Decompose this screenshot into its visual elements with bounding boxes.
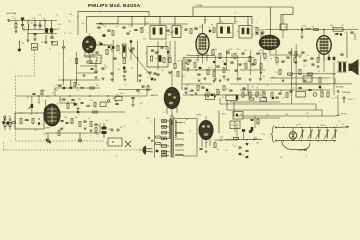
svg-text:68: 68 (312, 27, 314, 29)
svg-text:10k: 10k (256, 143, 259, 145)
capacitor (168, 72, 171, 73)
svg-text:A 320mA: A 320mA (342, 91, 350, 94)
wire drop (174, 17, 176, 26)
mains plug (139, 146, 153, 155)
IF T1 core b (160, 28, 163, 35)
capacitor (58, 85, 61, 86)
capacitor C4 (33, 34, 36, 35)
small box (303, 76, 312, 82)
svg-text:470: 470 (244, 95, 247, 97)
lead label 12 (163, 126, 165, 127)
svg-text:4,7: 4,7 (138, 93, 140, 95)
node (38, 118, 39, 119)
svg-text:25: 25 (236, 22, 238, 24)
capacitor C14 (25, 120, 28, 121)
capacitor (310, 58, 313, 59)
wire (270, 7, 272, 36)
wire drop (204, 17, 206, 25)
diagonal wire (128, 48, 151, 77)
diode (245, 143, 248, 146)
wire (243, 117, 280, 119)
svg-text:22k: 22k (90, 100, 93, 102)
ground (50, 42, 53, 44)
switch X (125, 141, 131, 147)
svg-text:A 320mA: A 320mA (336, 86, 344, 89)
svg-text:470: 470 (160, 146, 163, 148)
capacitor (255, 33, 258, 34)
svg-text:330: 330 (96, 85, 99, 87)
node (195, 69, 196, 70)
wire (27, 33, 29, 40)
secondary lead 4 (175, 154, 183, 156)
component (199, 67, 202, 69)
svg-text:18k: 18k (285, 114, 288, 116)
small box (226, 95, 237, 101)
wire (259, 55, 261, 78)
wire (45, 132, 100, 134)
svg-text:10k: 10k (8, 116, 11, 118)
switch dot (112, 141, 113, 142)
wire (22, 21, 24, 25)
capacitor (278, 93, 281, 94)
capacitor (275, 97, 278, 98)
coil (100, 43, 103, 45)
wire (15, 21, 17, 24)
svg-text:22k: 22k (161, 70, 164, 72)
wire (280, 15, 282, 31)
pot circle (107, 100, 110, 103)
node (283, 127, 284, 128)
svg-text:220: 220 (59, 129, 62, 131)
svg-text:220: 220 (262, 93, 265, 95)
svg-text:470: 470 (332, 74, 335, 76)
transformer secondary (174, 120, 177, 138)
resistor (327, 92, 329, 97)
resistor (74, 82, 76, 87)
capacitor (97, 27, 100, 28)
svg-text:25: 25 (332, 77, 334, 79)
terminal (117, 129, 119, 131)
ground (131, 105, 134, 107)
wire (132, 99, 134, 104)
wire (251, 17, 253, 25)
lead label 13 (163, 138, 165, 139)
node (89, 95, 90, 96)
component (272, 97, 274, 99)
ground (259, 72, 262, 74)
component (239, 153, 242, 155)
resistor (41, 90, 43, 95)
resistor (261, 34, 263, 39)
svg-text:330: 330 (103, 45, 106, 47)
wire (292, 7, 294, 15)
svg-text:22k: 22k (68, 21, 71, 23)
resistor (219, 54, 221, 59)
svg-text:2,2: 2,2 (254, 137, 256, 139)
node (107, 95, 108, 96)
wire (38, 96, 40, 103)
resistor (141, 28, 143, 33)
ground (44, 42, 47, 44)
svg-text:0,1: 0,1 (43, 19, 45, 21)
tuning coil 4 (324, 127, 329, 142)
wire bus 2 (23, 29, 58, 31)
capacitor (184, 29, 187, 30)
wire (262, 49, 264, 55)
svg-text:5k: 5k (166, 27, 168, 29)
resistor (249, 98, 254, 100)
svg-text:5k: 5k (36, 113, 38, 115)
capacitor (123, 71, 126, 72)
capacitor (245, 151, 248, 152)
resistor R9 (9, 122, 11, 126)
svg-text:11 22: 11 22 (41, 42, 45, 44)
wire (243, 132, 245, 140)
switch contact (148, 137, 150, 139)
ground (33, 39, 36, 41)
svg-text:12k: 12k (275, 72, 278, 74)
terminal (111, 129, 113, 131)
resistor R5 (90, 87, 95, 89)
wire (77, 72, 97, 74)
svg-text:2x: 2x (22, 43, 24, 45)
component (123, 67, 126, 70)
component (209, 30, 211, 33)
resistor (295, 52, 297, 57)
wire (188, 55, 215, 57)
resistor (271, 93, 273, 98)
IF transformer T1 box (150, 26, 166, 40)
svg-text:1k: 1k (267, 85, 269, 87)
svg-text:12k: 12k (258, 92, 261, 94)
svg-text:330: 330 (303, 66, 306, 68)
capacitor (301, 52, 304, 53)
wire (282, 30, 284, 38)
ground (197, 80, 200, 82)
wire long v (137, 41, 139, 82)
svg-text:3,3: 3,3 (243, 63, 245, 65)
tube V3 (260, 36, 280, 50)
wire (323, 54, 325, 60)
resistor (308, 73, 313, 75)
resistor (299, 70, 301, 75)
node (323, 29, 324, 30)
node (137, 57, 138, 58)
wire (192, 7, 194, 17)
wire (346, 32, 348, 59)
resistor (150, 56, 152, 61)
svg-text:12k: 12k (56, 85, 59, 87)
component (167, 51, 169, 53)
wire (70, 80, 72, 86)
transformer primary (168, 119, 171, 139)
switch contact (151, 140, 153, 142)
svg-text:220: 220 (237, 49, 240, 51)
svg-text:6,8: 6,8 (104, 26, 106, 28)
small box (280, 24, 287, 30)
IF transformer T2 box (172, 26, 181, 38)
tube V7 (199, 121, 213, 140)
ground (303, 80, 306, 82)
svg-text:UABC80: UABC80 (150, 94, 159, 97)
component (211, 94, 213, 96)
tube V2 leads (198, 53, 207, 63)
wire (231, 54, 233, 59)
ground (236, 79, 239, 81)
resistor R11 (32, 119, 34, 124)
resistor (147, 86, 149, 91)
wire (51, 34, 53, 38)
wire (34, 35, 36, 39)
resistor (112, 31, 114, 36)
component (112, 46, 115, 49)
svg-text:12k: 12k (146, 118, 149, 120)
capacitor C13 (115, 104, 118, 105)
resistor (174, 64, 176, 69)
resistor (257, 119, 259, 124)
svg-text:0,1: 0,1 (38, 103, 40, 105)
svg-text:0,1: 0,1 (200, 83, 202, 85)
capacitor (234, 70, 237, 71)
svg-text:56: 56 (332, 98, 334, 100)
node (283, 140, 284, 141)
resistor (217, 90, 219, 95)
svg-text:18k: 18k (54, 118, 57, 120)
wire bus B (219, 100, 322, 133)
coil L1 (21, 17, 24, 19)
mech dashed link (16, 50, 106, 141)
capacitor (134, 30, 137, 31)
resistor (234, 54, 236, 59)
svg-text:100: 100 (237, 31, 240, 33)
svg-text:0,05: 0,05 (180, 27, 183, 29)
capacitor (126, 33, 129, 34)
small box (333, 28, 343, 31)
resistor R10 (20, 119, 22, 124)
wire (184, 58, 186, 70)
capacitor (141, 86, 144, 87)
resistor (256, 28, 258, 33)
wire (230, 83, 330, 85)
capacitor (230, 62, 233, 63)
svg-text:68: 68 (78, 84, 80, 86)
capacitor (155, 52, 158, 53)
capacitor (260, 32, 263, 33)
ground (110, 79, 113, 81)
svg-text:1k: 1k (124, 126, 126, 128)
capacitor (194, 28, 197, 29)
dark component (251, 127, 254, 131)
wire (60, 111, 125, 113)
capacitor (197, 74, 200, 75)
tuning bus ext (336, 126, 349, 129)
IF T3 core a (220, 27, 223, 34)
capacitor (238, 64, 241, 65)
component (63, 87, 65, 89)
node (299, 56, 300, 57)
svg-text:0,1: 0,1 (338, 121, 340, 123)
wire (323, 30, 325, 36)
svg-text:8,2: 8,2 (318, 71, 320, 73)
svg-text:4,7: 4,7 (67, 101, 69, 103)
wire (323, 60, 325, 72)
capacitor (251, 64, 254, 65)
wire (270, 77, 330, 79)
svg-text:17: 17 (49, 49, 51, 51)
primary lead 6 (161, 150, 169, 153)
capacitor (303, 60, 306, 61)
coil L4 (306, 28, 311, 31)
wire (27, 30, 29, 33)
resistor R13 (79, 122, 81, 127)
svg-text:68: 68 (129, 31, 131, 33)
capacitor (308, 90, 311, 91)
left brace (271, 126, 274, 143)
capacitor (62, 47, 65, 48)
wire bus C (234, 102, 340, 116)
resistor (249, 57, 251, 62)
antenna terminal (8, 20, 10, 22)
svg-text:UY85: UY85 (196, 115, 202, 117)
svg-text:0,05: 0,05 (154, 58, 157, 60)
svg-text:100: 100 (186, 85, 189, 87)
tube V2 (196, 34, 209, 55)
osc core (159, 55, 162, 62)
wire (183, 94, 262, 96)
dark cap (236, 95, 239, 100)
wire (45, 35, 47, 42)
coil L2 (27, 25, 30, 30)
svg-text:50: 50 (252, 35, 254, 37)
svg-text:4,7: 4,7 (56, 15, 58, 17)
resistor (288, 73, 293, 75)
svg-text:3,3: 3,3 (128, 25, 130, 27)
small box (296, 92, 306, 98)
ground (218, 80, 221, 82)
svg-text:47k: 47k (146, 72, 149, 74)
wire (51, 21, 53, 29)
svg-text:COR. Vol: COR. Vol (339, 114, 347, 116)
svg-text:22k: 22k (248, 92, 251, 94)
svg-text:10k: 10k (244, 50, 247, 52)
svg-text:470: 470 (177, 60, 180, 62)
svg-text:10k: 10k (211, 24, 214, 26)
capacitor C16 (65, 123, 68, 124)
lead label 14 (163, 151, 165, 152)
ground (194, 93, 197, 95)
wire (15, 28, 17, 31)
small box UM (230, 121, 240, 129)
wire (31, 96, 33, 115)
svg-text:4,7: 4,7 (104, 65, 106, 67)
svg-text:0,5: 0,5 (225, 150, 227, 152)
capacitor (216, 66, 219, 67)
switch box (108, 138, 122, 146)
svg-text:18k: 18k (186, 70, 189, 72)
svg-text:56: 56 (52, 93, 54, 95)
capacitor (250, 120, 253, 121)
wire (269, 50, 271, 55)
svg-text:220: 220 (229, 49, 232, 51)
osc box (147, 47, 168, 68)
component (206, 89, 208, 91)
ground (212, 81, 215, 83)
svg-text:47k: 47k (96, 134, 99, 136)
svg-text:50: 50 (300, 88, 302, 90)
svg-text:1k: 1k (290, 54, 292, 56)
resistor (260, 64, 262, 69)
wire rail (292, 73, 336, 75)
ground (83, 128, 86, 130)
wire (34, 25, 36, 29)
ground (89, 130, 92, 132)
ground (294, 62, 297, 64)
resistor (194, 63, 196, 68)
transformer right wire (173, 119, 197, 157)
svg-text:12k: 12k (234, 145, 237, 147)
ground (123, 76, 126, 78)
svg-text:100: 100 (117, 69, 120, 71)
resistor (213, 28, 215, 33)
capacitor (166, 30, 169, 31)
ground (186, 68, 189, 70)
svg-text:18k: 18k (78, 99, 81, 101)
svg-text:3,3: 3,3 (299, 124, 301, 126)
wire (22, 26, 24, 30)
resistor (76, 59, 78, 64)
component (224, 63, 226, 65)
svg-text:5k: 5k (174, 55, 176, 57)
wire long v (295, 44, 297, 90)
resistor (163, 58, 165, 63)
wire (59, 96, 61, 103)
node (157, 51, 158, 52)
svg-text:470: 470 (82, 23, 85, 25)
svg-text:68: 68 (242, 155, 244, 157)
capacitor C15 (60, 121, 63, 122)
IF T4 core (242, 28, 245, 35)
svg-text:25: 25 (307, 55, 309, 57)
svg-text:100: 100 (34, 130, 37, 132)
component (340, 33, 342, 35)
ground (203, 78, 206, 80)
svg-text:4,7: 4,7 (342, 123, 344, 125)
resistor (254, 60, 256, 65)
wire (169, 41, 171, 57)
svg-text:12k: 12k (131, 51, 134, 53)
wire (44, 21, 46, 29)
wire (54, 88, 56, 96)
capacitor C3 (38, 25, 41, 26)
electrolytic C19 (78, 133, 81, 142)
svg-text:15k: 15k (341, 25, 344, 27)
resistor R8 (4, 122, 6, 126)
capacitor (113, 58, 116, 59)
capacitor (238, 147, 241, 148)
svg-text:15k: 15k (262, 134, 265, 136)
component (103, 34, 106, 37)
IF T1 core a (153, 28, 156, 35)
wire (99, 123, 101, 133)
wire (226, 50, 228, 70)
svg-text:47k: 47k (259, 53, 262, 55)
node (38, 95, 39, 96)
wire (333, 62, 335, 95)
svg-text:100: 100 (30, 23, 33, 25)
svg-text:8,2: 8,2 (256, 88, 258, 90)
terminal 6.3V (338, 95, 354, 113)
tuning coil 3 (316, 127, 321, 142)
